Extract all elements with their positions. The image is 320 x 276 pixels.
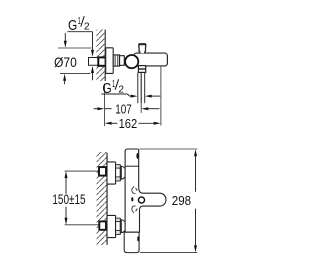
lower cone <box>121 220 126 233</box>
upper cone <box>121 166 126 179</box>
svg-text:298: 298 <box>172 193 191 208</box>
svg-text:107: 107 <box>115 101 132 116</box>
wall fitting square top view <box>98 57 105 65</box>
dimension 107 <box>94 101 160 116</box>
svg-text:150±15: 150±15 <box>52 192 85 207</box>
spacer top view <box>120 56 125 66</box>
svg-text:1: 1 <box>78 16 81 27</box>
bottom cap <box>124 232 139 252</box>
supply pipe in wall top view <box>89 58 99 66</box>
dimension 150 +-15 <box>52 171 85 225</box>
wall top view <box>96 30 105 82</box>
shower outlet fitting top view <box>138 66 145 73</box>
svg-text:G: G <box>102 81 111 97</box>
upper supply centreline <box>65 170 99 172</box>
spout tip extension line <box>160 67 162 126</box>
298 top extension line <box>140 148 198 150</box>
lower union nut front view <box>116 218 122 234</box>
diverter circle front view <box>138 197 144 203</box>
upper in-wall cap <box>99 167 106 176</box>
top cap seam <box>125 165 139 167</box>
lower escutcheon front view <box>107 215 116 237</box>
svg-text:162: 162 <box>119 116 138 131</box>
label G 1/2 outlet <box>101 79 160 98</box>
body top view <box>134 53 167 66</box>
shower hose pipe top view <box>138 73 145 104</box>
body front view with spout <box>125 149 166 232</box>
union nut top view <box>113 55 119 66</box>
label G 1/2 top <box>67 16 94 81</box>
dimension 298 <box>172 149 197 252</box>
wall front view <box>97 152 107 245</box>
dimension 162 <box>105 116 161 131</box>
lower in-wall cap <box>99 221 106 229</box>
handle circle top view <box>125 55 138 68</box>
diverter knob top view <box>139 44 146 53</box>
top cap grip notch <box>136 153 138 159</box>
svg-text:1: 1 <box>112 79 115 90</box>
spout flare curl upper <box>132 187 136 194</box>
wall face extension line top view <box>104 84 106 127</box>
pipe centre extension line <box>140 103 142 113</box>
slot on body <box>131 197 133 201</box>
bottom cap grip notch <box>137 236 139 241</box>
svg-text:Ø70: Ø70 <box>54 55 77 70</box>
spout flare curl lower <box>132 206 136 213</box>
lower supply centreline <box>65 224 100 226</box>
dimension D70 <box>54 33 92 84</box>
upper union nut front view <box>116 165 122 181</box>
svg-text:2: 2 <box>84 21 90 32</box>
upper escutcheon front view <box>107 162 116 184</box>
298 bottom extension line <box>140 252 198 254</box>
escutcheon top view <box>106 48 114 74</box>
